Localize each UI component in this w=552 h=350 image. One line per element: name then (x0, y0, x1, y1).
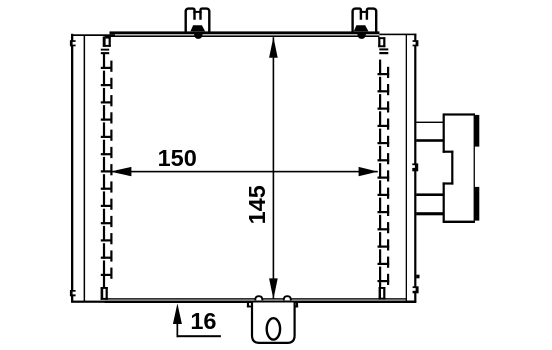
connector block seal bar top (475, 115, 480, 147)
bracket right wing (296, 303, 298, 308)
right side tank outer line (414, 34, 416, 302)
connector block top edge (443, 113, 474, 115)
right fin strip bottom vertical (379, 282, 381, 288)
bracket oval hole (267, 318, 280, 339)
bottom bracket body (252, 303, 295, 343)
connector block notch bottom step (443, 182, 454, 184)
right fin strip bottom terminator (379, 287, 381, 300)
dimension 150 line (111, 171, 378, 173)
connector block seal bar bottom (475, 187, 480, 221)
dimension 145 line (273, 37, 275, 299)
left fin strip bottom vertical (103, 276, 105, 288)
left fin strip bottom terminator (101, 287, 104, 300)
right side tank inner line (406, 34, 407, 301)
bottom pipe lower line (416, 212, 444, 215)
svg-text:16: 16 (190, 308, 216, 334)
left tank bottom line (71, 301, 105, 303)
core bottom bar thin line (105, 298, 407, 299)
dimension 150 left arrowhead (110, 167, 131, 176)
top pipe lower line (416, 139, 444, 142)
left fin strip top terminator (103, 37, 106, 47)
bracket left bump (255, 296, 262, 300)
connector block notch inner edge (451, 151, 453, 185)
dimension 145 top arrowhead (269, 37, 278, 58)
right tank clip mark bottom (413, 286, 419, 293)
svg-text:150: 150 (158, 145, 197, 171)
dimension 150 right arrowhead (359, 167, 378, 176)
bracket left wing (247, 303, 249, 308)
left tank top line (71, 34, 115, 36)
bracket right bump (284, 296, 291, 300)
right tank clip mark top (413, 40, 419, 46)
right fin strip hooks (378, 73, 390, 75)
connector block bottom edge (443, 221, 474, 223)
right tank mid mark (412, 163, 418, 171)
svg-text:145: 145 (244, 185, 270, 224)
left tank clip mark bottom (70, 290, 76, 296)
bottom pipe upper line (416, 193, 444, 196)
connector block right edge (474, 113, 475, 223)
core top bar thick line (110, 31, 380, 34)
top pipe upper line (416, 122, 444, 123)
top right link line (379, 34, 416, 36)
left fin strip double line (101, 49, 109, 51)
dimension 145 bottom arrowhead (269, 278, 278, 299)
left side tank inner line (84, 35, 86, 302)
connector block left edge lower (443, 182, 445, 223)
core bottom bar thick line (105, 301, 417, 304)
dimension 16 leader line (177, 335, 221, 337)
dimension 16 arrowhead (173, 303, 182, 324)
left tank clip mark top (70, 40, 76, 46)
right fin strip top terminator (378, 37, 380, 47)
top mounting clip 1 (186, 9, 195, 32)
right fin strip double line (379, 48, 388, 50)
dimension 16 shaft (177, 318, 179, 337)
connector block notch top step (443, 151, 454, 153)
left side tank outer line (71, 34, 73, 303)
core top bar lower line (105, 35, 380, 37)
right tank small nub (416, 275, 419, 279)
top mounting clip 2 (353, 9, 361, 32)
connector block left edge upper (443, 113, 445, 152)
left fin strip hooks (101, 67, 113, 69)
